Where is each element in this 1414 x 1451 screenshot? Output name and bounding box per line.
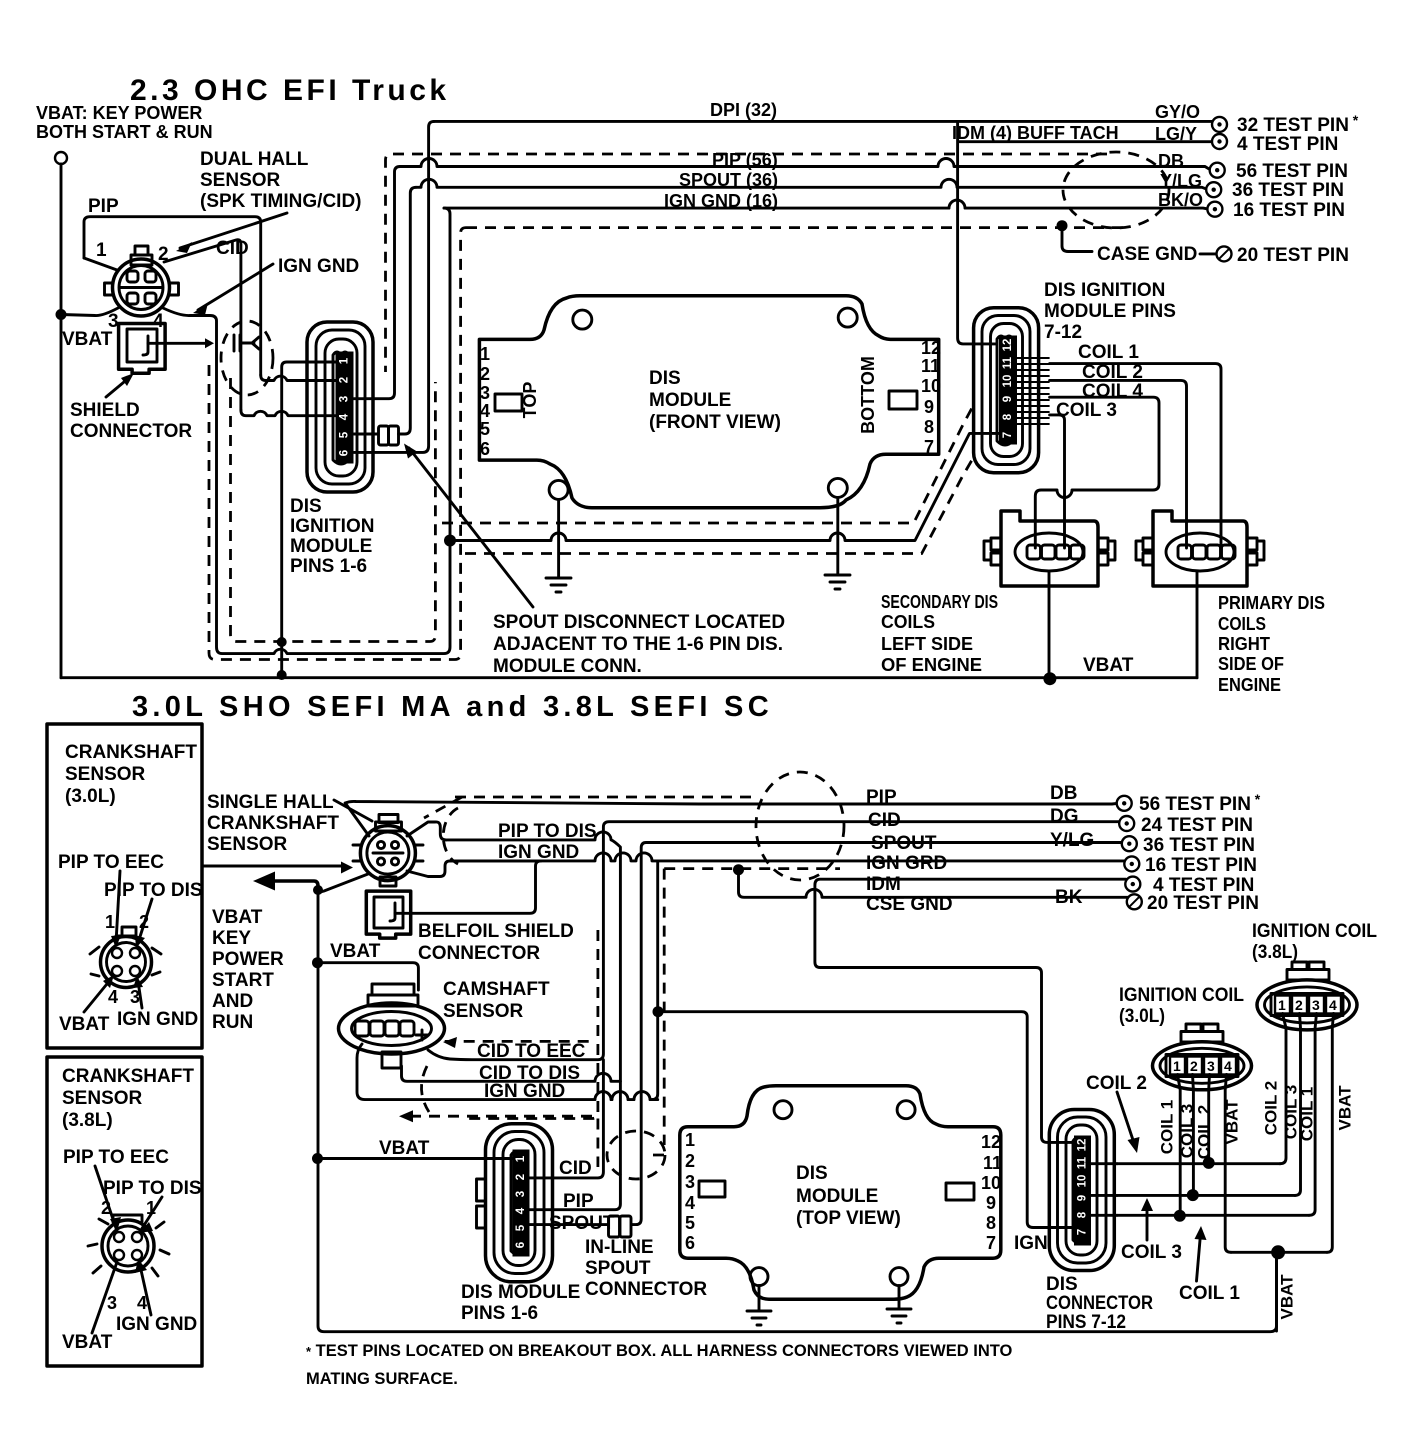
svg-text:3: 3 [685,1172,695,1192]
svg-text:SPOUT: SPOUT [585,1258,651,1279]
node 16 test pin lower [1124,856,1139,871]
svg-text:6: 6 [339,450,351,456]
svg-text:DIS IGNITION: DIS IGNITION [1044,280,1165,301]
node dot VBAT bus [1271,1245,1285,1259]
wire spout connector to SPOUT riser [399,187,417,434]
svg-text:VBAT: VBAT [62,1332,113,1353]
wire CID horiz into pin4 with hops [241,410,336,416]
svg-text:DB: DB [1050,783,1077,804]
label lower 1-6 digits [515,1155,527,1248]
component DIS MODULE (FRONT VIEW) outline [479,296,938,508]
wire 3.8L coil pin4 VBAT down [1327,1014,1334,1253]
svg-text:1: 1 [1173,1058,1181,1074]
wire 3.0L coil pin3 down [1207,1075,1211,1163]
wire ign gnd branch right to IGN [658,1012,1076,1228]
svg-text:DIS: DIS [649,368,681,389]
svg-text:10: 10 [1002,375,1014,388]
svg-text:ADJACENT TO THE 1-6 PIN DIS.: ADJACENT TO THE 1-6 PIN DIS. [493,634,783,655]
svg-text:BOTTOM: BOTTOM [858,356,878,434]
svg-text:7: 7 [1002,432,1014,438]
svg-text:BOTH START & RUN: BOTH START & RUN [36,122,213,142]
node dot bus1/3.0L pin3 [1203,1157,1215,1169]
symbol shield drain bars [234,335,259,351]
wire CID TO DIS [402,1066,621,1081]
svg-text:IGN GND: IGN GND [484,1081,565,1102]
node mounting hole bottom-right [828,478,847,497]
svg-text:11: 11 [921,356,940,376]
svg-text:10: 10 [981,1173,1001,1193]
dashed arc around camshaft bottom [421,1066,429,1112]
label module pins 12-7 [921,338,941,457]
dashed harness oval lower mid [756,772,844,880]
wire pin7 gnd run (y=540) with hops [450,433,1004,540]
svg-text:SENSOR: SENSOR [62,1088,143,1109]
svg-text:16 TEST PIN: 16 TEST PIN [1145,855,1257,876]
svg-text:PIP: PIP [866,787,897,808]
wire case gnd to 20 pin [1200,252,1216,255]
svg-text:CRANKSHAFT: CRANKSHAFT [65,742,197,763]
svg-text:VBAT: VBAT [62,329,113,350]
svg-text:SENSOR: SENSOR [207,834,288,855]
node case gnd junction dot [1057,220,1068,231]
svg-text:LEFT SIDE: LEFT SIDE [881,634,973,654]
svg-text:3: 3 [107,1293,117,1313]
component in-line spout connector (lower) [528,1216,631,1237]
svg-text:4: 4 [1224,1058,1232,1074]
svg-text:Y/LG: Y/LG [1050,830,1094,851]
node VBAT junction dot [1043,672,1056,685]
svg-text:IN-LINE: IN-LINE [585,1237,654,1258]
svg-text:SENSOR: SENSOR [443,1001,524,1022]
svg-text:56 TEST PIN *: 56 TEST PIN * [1139,791,1261,815]
svg-text:DIS: DIS [1046,1274,1078,1295]
dashed vertical x=597.9 [462,930,598,1167]
label 3.0L coil pin digits [1173,1058,1232,1074]
wire VBAT vertical left rail [60,164,63,678]
svg-text:8: 8 [924,417,934,437]
dashed diagonal into sensor [424,797,462,818]
svg-text:CONNECTOR: CONNECTOR [418,943,540,964]
node dot on dashed crossing [277,637,287,647]
svg-text:9: 9 [1002,396,1014,402]
svg-text:PINS 1-6: PINS 1-6 [461,1303,538,1324]
svg-text:20 TEST PIN: 20 TEST PIN [1147,893,1259,914]
wire pin5 to inline spout connector [354,433,378,436]
wire 3.8L coil pin3 down [1309,1014,1317,1216]
node 36 test pin [1206,182,1221,197]
wire PIP sensor loop [84,217,261,375]
svg-text:7: 7 [1077,1229,1089,1235]
svg-text:1: 1 [105,912,115,932]
svg-text:SINGLE HALL: SINGLE HALL [207,792,334,813]
node dot bus3/3.0L pin1 [1174,1210,1186,1222]
svg-text:11: 11 [983,1153,1002,1173]
svg-text:COILS: COILS [1218,614,1266,634]
svg-text:2: 2 [339,377,351,383]
svg-text:3: 3 [1207,1058,1215,1074]
svg-text:VBAT: KEY POWER: VBAT: KEY POWER [36,103,202,123]
svg-text:TOP: TOP [520,382,540,419]
dashed boundary lower harness top [455,796,758,799]
dashed arrow camshaft left [410,1115,592,1118]
svg-text:1: 1 [339,357,351,364]
svg-text:CRANKSHAFT: CRANKSHAFT [207,813,339,834]
leader arrow COIL 2 [1117,1092,1135,1146]
wire connector stub pin11 [1091,1162,1117,1165]
wire CID TO EEC [428,822,1127,1060]
wire belfoil to IGN GND [395,861,541,913]
svg-text:OF ENGINE: OF ENGINE [881,655,982,675]
component crankshaft sensor 3.0L box [47,724,202,1048]
svg-text:20 TEST PIN: 20 TEST PIN [1237,245,1349,266]
node 32 test pin [1212,117,1227,132]
label lower 7-12 digits [1077,1139,1089,1236]
svg-text:4: 4 [515,1207,527,1214]
svg-text:SECONDARY DIS: SECONDARY DIS [881,592,998,612]
wire COIL4 path [1035,397,1159,548]
svg-text:COIL 3: COIL 3 [1056,400,1117,421]
wire sensor left wing to PIP trunk [345,803,369,836]
wire VBAT coil bus [1231,1251,1327,1254]
svg-text:AND: AND [212,991,253,1012]
svg-text:12: 12 [981,1132,1001,1152]
leader PIP TO EEC to pin1 [116,871,120,943]
leader arrow SPK to pin2 [180,213,287,248]
node 20 test pin [1217,246,1232,261]
component camshaft sensor [339,984,445,1068]
wire pin6 to DPI riser [354,121,434,452]
svg-text:(TOP VIEW): (TOP VIEW) [796,1208,901,1229]
wire PIP horiz into pin2 with hop [261,375,336,381]
svg-text:36 TEST PIN: 36 TEST PIN [1143,835,1255,856]
node 16 test pin [1207,202,1222,217]
dashed boundary y=868 [664,867,840,870]
svg-text:(3.0L): (3.0L) [1119,1006,1165,1027]
svg-text:IGN GND: IGN GND [116,1314,197,1335]
svg-text:DB: DB [1158,151,1184,171]
wire CSE GND [739,870,1135,902]
svg-text:COIL 1: COIL 1 [1297,1087,1316,1141]
wire COIL1 [1050,364,1221,546]
svg-text:12: 12 [1002,339,1014,352]
wire IGN GND (16) line with hop [444,200,1209,209]
svg-text:12: 12 [1077,1139,1089,1152]
wire primary coil to VBAT rail [1196,571,1199,678]
svg-text:IDM (4) BUFF TACH: IDM (4) BUFF TACH [952,123,1119,143]
svg-text:4: 4 [1329,997,1337,1013]
ground symbol left [546,578,571,592]
wire shield to IGN GND vertical [148,342,208,345]
svg-text:36 TEST PIN: 36 TEST PIN [1232,180,1344,201]
component 3.0L sensor connector [90,927,161,988]
wire bold arrow to EEC [271,881,318,886]
wire 3.8L coil pin2 down [1295,1014,1301,1196]
wire PIP (56) line with hops [400,159,1211,171]
svg-text:VBAT: VBAT [1277,1274,1296,1320]
svg-text:START: START [212,970,274,991]
leader arrow COIL 1 [1197,1234,1201,1281]
node dot bus2/3.0L pin2 [1187,1189,1199,1201]
svg-text:3: 3 [339,396,351,402]
node 4 test pin [1212,134,1227,149]
wire DPI (32) top line [434,121,1220,124]
svg-text:GY/O: GY/O [1155,102,1200,122]
svg-text:IGN GND: IGN GND [117,1009,198,1030]
svg-text:COIL 1: COIL 1 [1179,1283,1240,1304]
svg-text:CONNECTOR: CONNECTOR [1046,1293,1153,1314]
wire VBAT to camshaft sensor [318,963,419,990]
wire connector stub pin9 [1091,1194,1117,1197]
wire coil1 bus [1117,1214,1309,1217]
svg-text:COIL 1: COIL 1 [1078,342,1139,363]
label top view pins 12-7 [981,1132,1002,1253]
dashed vertical x=664 [652,869,664,1155]
ground symbol right [825,575,850,589]
component BOTTOM keyway [889,391,917,409]
dashed sensor-region boundary left [231,378,436,642]
node dot ign gnd branch [653,1006,664,1017]
svg-text:32 TEST PIN *: 32 TEST PIN * [1237,112,1359,136]
wire coil3 bus [1117,1194,1295,1197]
svg-text:BK: BK [1055,887,1083,908]
node top view hole top-right [897,1101,915,1119]
svg-text:SENSOR: SENSOR [65,764,146,785]
ground symbol top view right [887,1309,911,1323]
wire ground top view right [898,1286,901,1309]
svg-text:IDM: IDM [866,874,901,895]
svg-text:PRIMARY DIS: PRIMARY DIS [1218,593,1325,613]
wire 3.8L coil pin1 down [1280,1014,1286,1164]
svg-text:2: 2 [515,1174,527,1180]
svg-text:2: 2 [158,244,169,265]
svg-text:5: 5 [685,1213,695,1233]
svg-text:IGNITION COIL: IGNITION COIL [1252,921,1377,942]
svg-text:COIL 3: COIL 3 [1121,1242,1182,1263]
svg-text:VBAT: VBAT [59,1014,110,1035]
wire VBAT drop to bottom rail [1275,1252,1278,1331]
node 4 test pin lower [1125,877,1140,892]
svg-text:BK/O: BK/O [1158,190,1203,210]
svg-text:8: 8 [986,1213,996,1233]
node junction dot VBAT/sensor pin3 [56,309,67,320]
svg-text:4: 4 [480,401,490,421]
svg-text:(3.8L): (3.8L) [62,1110,113,1131]
svg-text:KEY: KEY [212,928,251,949]
svg-text:12: 12 [921,338,941,358]
svg-text:MODULE: MODULE [649,390,731,411]
component primary DIS coil connector [1136,511,1264,586]
wire 3.0L coil pin2 down [1191,1075,1195,1196]
wire VBAT into pin1 [318,1157,514,1160]
svg-text:7: 7 [986,1233,996,1253]
svg-text:7: 7 [924,437,934,457]
svg-text:CID TO EEC: CID TO EEC [477,1041,586,1062]
leader VBAT to pin4 [84,979,111,1012]
svg-text:CRANKSHAFT: CRANKSHAFT [62,1066,194,1087]
wire ground right from module [836,497,839,575]
wire sensor pin3 diag to VBAT junction [318,874,368,892]
wire connector stub pin8 [1091,1214,1117,1217]
svg-text:10: 10 [921,376,941,396]
svg-text:PIP (56): PIP (56) [712,150,778,170]
svg-text:11: 11 [1002,356,1014,369]
node mounting hole top-left [573,310,592,329]
svg-text:CSE GND: CSE GND [866,894,953,915]
svg-text:COIL 2: COIL 2 [1194,1105,1213,1159]
leader arrow IGN GND [198,264,273,310]
dashed lower trunk oval [607,1131,665,1179]
wire IGN GND trunk line [450,853,1132,1100]
svg-text:3: 3 [515,1191,527,1197]
svg-text:MODULE CONN.: MODULE CONN. [493,656,642,677]
leader arrow shield connector [106,377,130,397]
node top view hole bottom-left [750,1268,768,1286]
wire PIP diag to sensor pin1 [84,258,117,270]
component crankshaft sensor 3.8L box [47,1057,202,1366]
svg-text:IGN GND: IGN GND [278,256,359,277]
component top view left keyway [699,1181,725,1197]
svg-text:56 TEST PIN: 56 TEST PIN [1236,161,1348,182]
svg-text:CAMSHAFT: CAMSHAFT [443,979,550,1000]
wire case gnd drop [1062,226,1092,252]
node 56 test pin lower [1117,796,1132,811]
svg-text:ENGINE: ENGINE [1218,675,1281,695]
wire CID diag from sensor pin2 [164,240,241,410]
node dot on VBAT rail [277,670,287,680]
svg-text:RIGHT: RIGHT [1218,634,1270,654]
svg-text:5: 5 [515,1224,527,1231]
svg-text:CASE GND: CASE GND [1097,244,1197,265]
wire PIP TO DIS line [446,832,620,1210]
svg-text:LG/Y: LG/Y [1155,124,1197,144]
component 3.8L sensor connector [88,1215,169,1276]
wire VBAT riser to pin1 [282,362,336,677]
component spout disconnect connector (top) [379,426,399,445]
svg-text:POWER: POWER [212,949,284,970]
wire ground left from module [557,499,560,578]
svg-text:COILS: COILS [881,612,935,632]
wire secondary coil to VBAT rail [1048,571,1051,678]
svg-text:IGN GRD: IGN GRD [866,853,947,874]
svg-text:9: 9 [924,397,934,417]
node VBAT dot 1158 [312,1153,323,1164]
svg-text:PIP: PIP [88,196,119,217]
component shield connector [119,324,166,374]
svg-text:COIL 1: COIL 1 [1157,1100,1176,1154]
label pins 12-7 digits [1002,339,1014,439]
node 56 test pin [1210,163,1225,178]
wire COIL2 [1050,380,1187,548]
dashed harness oval near single hall sensor [443,808,458,864]
wire ground top view left [758,1286,761,1311]
wire coil2 bus [1117,1162,1280,1165]
svg-text:SHIELD: SHIELD [70,400,140,421]
svg-text:DIS MODULE: DIS MODULE [461,1282,580,1303]
node top view hole top-left [774,1101,792,1119]
wire VBAT bottom rail [61,676,1197,679]
svg-text:MODULE PINS: MODULE PINS [1044,301,1176,322]
svg-text:2: 2 [685,1151,695,1171]
svg-text:6: 6 [685,1233,695,1253]
svg-text:2: 2 [480,364,490,384]
svg-text:MODULE: MODULE [290,536,372,557]
svg-text:16 TEST PIN: 16 TEST PIN [1233,200,1345,221]
svg-text:SENSOR: SENSOR [200,170,281,191]
svg-text:SPOUT DISCONNECT LOCATED: SPOUT DISCONNECT LOCATED [493,612,785,633]
wire 3.0L coil pin1 down [1178,1075,1181,1217]
component single hall crankshaft sensor [353,815,423,887]
label top view pins 1-6 [685,1130,695,1253]
svg-text:8: 8 [1077,1211,1089,1218]
svg-text:1: 1 [480,344,490,364]
node VBAT key power terminal [55,152,67,164]
leader arrow COIL 3 [1146,1206,1149,1240]
svg-text:* TEST PINS LOCATED ON BREAKOU: * TEST PINS LOCATED ON BREAKOUT BOX. ALL… [306,1342,1013,1360]
node mounting hole top-right [838,308,857,327]
svg-text:5: 5 [480,419,490,439]
svg-text:1: 1 [96,240,107,261]
dashed outer boundary [386,154,1108,372]
component top view right keyway [946,1183,974,1200]
svg-text:MATING SURFACE.: MATING SURFACE. [306,1370,458,1388]
svg-text:MODULE: MODULE [796,1186,878,1207]
svg-text:8: 8 [1002,413,1014,420]
svg-text:1: 1 [1278,997,1286,1013]
wire sensor pin3 to VBAT rail [61,308,118,316]
svg-text:1: 1 [515,1155,527,1162]
node top view hole bottom-right [890,1268,908,1286]
leader arrow PIP TO EEC head (3.8L) [110,1217,121,1232]
svg-text:COIL 2: COIL 2 [1082,362,1143,383]
svg-text:11: 11 [1077,1156,1089,1169]
svg-text:VBAT: VBAT [1083,655,1134,676]
svg-text:IGN GND (16): IGN GND (16) [664,191,778,211]
svg-text:PIP TO EEC: PIP TO EEC [63,1147,169,1168]
svg-text:CONNECTOR: CONNECTOR [585,1279,707,1300]
svg-text:1: 1 [685,1130,695,1150]
wire IGN GND camshaft [357,1044,658,1100]
node CSE GND junction dot on dashed [733,864,744,875]
svg-text:9: 9 [986,1193,996,1213]
svg-text:10: 10 [1077,1175,1089,1188]
svg-text:CID: CID [868,810,901,831]
svg-text:3: 3 [1312,997,1320,1013]
wire 3.0L coil pin4 VBAT down [1225,1075,1231,1253]
leader IGN GND to pin3 [138,981,142,1008]
svg-text:IGNITION COIL: IGNITION COIL [1119,985,1244,1006]
svg-text:PINS 7-12: PINS 7-12 [1046,1312,1126,1333]
svg-text:2: 2 [1190,1058,1198,1074]
component ignition coil 3.0L connector [1153,1024,1252,1090]
wire SPOUT (36) line with hops [416,179,1208,189]
wire sensor right wing bracket [407,822,450,877]
dashed mid vertical + dash-dot lower [442,408,972,523]
svg-text:4 TEST PIN: 4 TEST PIN [1237,134,1338,155]
svg-text:7-12: 7-12 [1044,322,1082,343]
label pins 1-6 digits [339,357,351,456]
svg-text:PIP TO EEC: PIP TO EEC [58,852,164,873]
svg-text:DIS: DIS [290,496,322,517]
svg-text:IGN: IGN [1014,1233,1048,1254]
leader IGN GND to pin4 (3.8L) [139,1261,151,1315]
component ignition coil 3.8L connector [1257,962,1357,1030]
svg-text:VBAT: VBAT [212,907,263,928]
svg-text:RUN: RUN [212,1012,253,1033]
svg-text:(3.0L): (3.0L) [65,786,116,807]
svg-text:DUAL HALL: DUAL HALL [200,149,309,170]
svg-text:4: 4 [339,413,351,420]
svg-text:DPI (32): DPI (32) [710,100,777,120]
